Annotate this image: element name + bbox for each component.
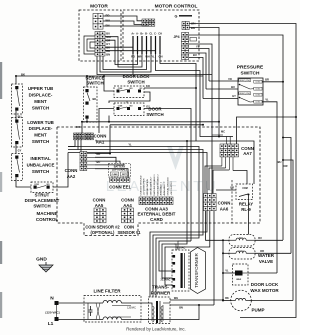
svg-text:DISPLACE-: DISPLACE- — [29, 93, 53, 98]
svg-text:CONN: CONN — [241, 146, 254, 151]
svg-text:BU: BU — [97, 160, 101, 164]
svg-text:AA4: AA4 — [123, 203, 132, 208]
watermark — [106, 146, 219, 195]
svg-text:DIRTY: DIRTY — [122, 174, 128, 176]
svg-text:120VAC: 120VAC — [127, 307, 136, 310]
svg-text:COM: COM — [118, 105, 123, 107]
svg-text:CONN AA3: CONN AA3 — [145, 206, 168, 211]
svg-text:BR: BR — [265, 78, 269, 82]
svg-text:BU: BU — [258, 237, 262, 240]
svg-text:SERIAL DATA IN: SERIAL DATA IN — [146, 179, 149, 196]
svg-text:LINE FILTER: LINE FILTER — [94, 289, 122, 294]
connector CONN AA1 — [74, 133, 77, 136]
svg-text:CL: CL — [149, 33, 153, 36]
svg-text:CH: CH — [158, 33, 162, 36]
strut displacement switch S4 — [31, 182, 53, 193]
bar exit wires — [156, 54, 220, 137]
svg-text:DOOR LOCK: DOOR LOCK — [123, 74, 151, 79]
svg-text:N: N — [50, 296, 54, 302]
svg-text:LOWER TUB: LOWER TUB — [27, 120, 54, 125]
svg-text:AVAILABLE 1: AVAILABLE 1 — [160, 181, 163, 195]
svg-text:HOT: HOT — [239, 237, 244, 239]
svg-text:SWITCH: SWITCH — [146, 112, 163, 117]
svg-text:DISPLACE-: DISPLACE- — [29, 126, 53, 131]
svg-text:CARD: CARD — [150, 217, 163, 222]
svg-text:CONC: CONC — [255, 102, 261, 104]
svg-text:BU: BU — [193, 53, 197, 57]
svg-text:PUMP: PUMP — [251, 308, 264, 313]
svg-text:(OPTIONAL): (OPTIONAL) — [91, 230, 116, 235]
connector JG — [182, 22, 186, 26]
svg-text:WH: WH — [106, 19, 111, 23]
svg-text:CHASSIS GROUND: CHASSIS GROUND — [139, 175, 142, 195]
svg-text:22.5VAC: 22.5VAC — [161, 279, 171, 282]
JP4 wires — [189, 35, 283, 82]
svg-text:WAX MOTOR: WAX MOTOR — [250, 288, 279, 293]
svg-text:BK: BK — [225, 297, 229, 300]
AA6 load wires — [206, 211, 223, 241]
battery optional — [109, 164, 131, 178]
svg-text:RESET (21W): RESET (21W) — [239, 93, 250, 95]
svg-text:BU: BU — [231, 85, 235, 89]
svg-text:COM: COM — [242, 188, 247, 190]
svg-text:CONN: CONN — [94, 134, 107, 139]
svg-text:VO: VO — [228, 77, 232, 81]
svg-text:CONC: CONC — [255, 89, 261, 91]
svg-text:COM: COM — [118, 88, 123, 90]
wires motor to J2 — [103, 16, 142, 21]
svg-text:CONN: CONN — [218, 201, 231, 206]
svg-text:SIGNAL GROUND: SIGNAL GROUND — [167, 177, 170, 196]
upper tub displacement switch S1 — [12, 84, 23, 114]
svg-text:YL: YL — [196, 45, 200, 49]
transformer label plate — [191, 248, 206, 294]
svg-text:BU: BU — [106, 32, 110, 36]
svg-text:RD: RD — [106, 14, 110, 18]
svg-text:MENT: MENT — [34, 133, 47, 138]
svg-text:WH: WH — [145, 55, 149, 59]
connector CONN AA6 — [204, 194, 208, 198]
connector CONN AA2 — [80, 152, 83, 156]
svg-text:UNBALANCE: UNBALANCE — [27, 162, 55, 167]
svg-text:WATER: WATER — [258, 253, 275, 258]
svg-text:COIN SENSOR #2: COIN SENSOR #2 — [85, 225, 120, 230]
svg-text:MENT: MENT — [34, 99, 47, 104]
svg-text:TRANS-: TRANS- — [152, 285, 169, 290]
svg-text:+24V SUPPLY: +24V SUPPLY — [171, 181, 173, 196]
svg-text:KO: KO — [146, 84, 150, 88]
svg-text:BU: BU — [278, 160, 282, 164]
svg-text:CONC: CONC — [255, 82, 261, 84]
svg-text:YL: YL — [151, 55, 155, 59]
connector CONN EE1 — [110, 178, 113, 182]
svg-text:UPPER TUB: UPPER TUB — [28, 86, 53, 91]
svg-text:OR: OR — [260, 250, 264, 253]
svg-text:AA5: AA5 — [95, 203, 104, 208]
pump motor — [231, 290, 252, 311]
svg-text:AVAILABLE 2: AVAILABLE 2 — [163, 181, 166, 195]
motor main connector — [95, 32, 100, 36]
bottom wires — [163, 302, 170, 304]
relay RL-9 — [236, 184, 253, 200]
svg-text:INERTIAL: INERTIAL — [30, 156, 51, 161]
svg-text:BK: BK — [93, 97, 97, 101]
svg-text:MOTOR: MOTOR — [90, 4, 108, 10]
door lock wax motor — [233, 264, 249, 285]
svg-text:SERVICE: SERVICE — [85, 75, 104, 80]
motor body core — [84, 36, 95, 54]
svg-text:OR: OR — [230, 187, 234, 190]
svg-text:BN: BN — [179, 307, 183, 310]
door switch S7 — [114, 103, 144, 116]
svg-text:CONC: CONC — [255, 95, 261, 97]
svg-text:CONN: CONN — [65, 168, 78, 173]
svg-text:FORMER: FORMER — [151, 290, 171, 295]
svg-text:SWITCH: SWITCH — [32, 105, 49, 110]
svg-text:MC: MC — [221, 129, 225, 133]
svg-text:STRUT: STRUT — [35, 193, 50, 198]
svg-text:TRANSFORMER: TRANSFORMER — [194, 252, 199, 288]
svg-text:YL: YL — [128, 142, 132, 146]
bus wires — [68, 140, 75, 147]
inertial unbalance switch S3 — [12, 154, 23, 181]
pressure switch left wires — [209, 80, 238, 82]
water valve coil 2 cold — [229, 248, 255, 260]
svg-text:SERIAL DATA OUT: SERIAL DATA OUT — [150, 176, 153, 196]
svg-text:BN: BN — [106, 53, 110, 57]
svg-text:A-: A- — [136, 33, 139, 36]
svg-text:G: G — [175, 14, 178, 18]
svg-text:RD: RD — [97, 152, 101, 156]
svg-text:CONN: CONN — [93, 198, 106, 203]
machine control U2 dashed box — [57, 127, 260, 236]
wire JG to right edge — [189, 24, 296, 318]
svg-text:COM: COM — [34, 184, 39, 186]
svg-text:L1: L1 — [48, 321, 54, 327]
svg-text:AA6: AA6 — [220, 207, 229, 212]
svg-text:RESET (21W): RESET (21W) — [239, 80, 250, 82]
svg-text:SWITCH: SWITCH — [241, 71, 260, 77]
lower tub displacement switch S2 — [12, 118, 23, 148]
motor top connector — [93, 14, 98, 19]
svg-text:SWITCH: SWITCH — [127, 79, 144, 84]
svg-text:MACHINE ENABLE 2: MACHINE ENABLE 2 — [156, 174, 159, 196]
door switch wires — [104, 76, 114, 91]
svg-text:SWITCH: SWITCH — [86, 81, 103, 86]
svg-text:MOTOR CONTROL: MOTOR CONTROL — [155, 4, 198, 10]
svg-text:+5V LOGIC PWR: +5V LOGIC PWR — [144, 178, 146, 195]
water valve coil 1 hot — [229, 235, 255, 247]
transformer T1 — [172, 250, 189, 291]
svg-text:DOOR LOCK: DOOR LOCK — [251, 282, 279, 287]
svg-text:CONN EE1: CONN EE1 — [109, 185, 131, 190]
svg-text:[120 VAC]: [120 VAC] — [46, 311, 60, 315]
svg-text:RL-9: RL-9 — [241, 207, 251, 212]
svg-text:DOOR: DOOR — [148, 107, 162, 112]
svg-text:GY: GY — [18, 149, 22, 153]
svg-text:EXTERNAL DEBIT: EXTERNAL DEBIT — [138, 212, 176, 217]
svg-text:AA2: AA2 — [67, 174, 76, 179]
svg-text:VALVE: VALVE — [259, 259, 273, 264]
connector J2 — [142, 19, 145, 23]
svg-text:SWITCH: SWITCH — [32, 139, 49, 144]
svg-text:VL: VL — [265, 97, 269, 101]
svg-text:SWITCH: SWITCH — [33, 204, 50, 209]
svg-text:SWITCH: SWITCH — [32, 169, 49, 174]
svg-text:GY: GY — [106, 42, 110, 46]
svg-text:GND: GND — [36, 257, 47, 263]
svg-text:BU: BU — [18, 115, 22, 119]
svg-text:B+: B+ — [140, 33, 144, 36]
svg-text:OR: OR — [284, 164, 288, 168]
svg-text:WH: WH — [174, 297, 178, 300]
svg-text:(OPTIONAL): (OPTIONAL) — [112, 169, 127, 172]
svg-text:VL: VL — [225, 270, 229, 273]
scan artifact smudges — [0, 62, 2, 99]
svg-text:WAX: WAX — [236, 278, 242, 281]
svg-text:COLD: COLD — [238, 250, 244, 252]
svg-text:MACHINE: MACHINE — [37, 211, 58, 216]
svg-text:AA7: AA7 — [243, 151, 252, 156]
svg-text:RELAY: RELAY — [239, 202, 253, 207]
svg-text:CONTROL: CONTROL — [36, 217, 58, 222]
motor wiring loops — [97, 56, 212, 75]
svg-text:Rendered by LeadVenture, Inc.: Rendered by LeadVenture, Inc. — [126, 327, 185, 332]
svg-text:GY: GY — [146, 104, 150, 108]
svg-text:OH: OH — [159, 55, 163, 59]
svg-text:COIN: COIN — [124, 225, 134, 230]
svg-text:BN: BN — [106, 24, 110, 28]
svg-text:DISPLACEMENT: DISPLACEMENT — [25, 198, 60, 203]
svg-text:CLEAN: CLEAN — [112, 173, 119, 176]
pressure switch right wires — [262, 82, 283, 240]
svg-text:PRESSURE: PRESSURE — [237, 65, 264, 71]
svg-text:MACHINE ENABLE 1: MACHINE ENABLE 1 — [153, 174, 156, 196]
svg-text:JP4: JP4 — [173, 35, 179, 39]
svg-text:A+: A+ — [131, 33, 135, 36]
svg-text:CONN: CONN — [121, 198, 134, 203]
svg-text:B-: B- — [145, 33, 148, 36]
svg-text:AA1: AA1 — [96, 139, 105, 144]
svg-text:GY: GY — [232, 94, 236, 98]
svg-text:C-: C- — [154, 33, 157, 36]
svg-text:SENSOR #1: SENSOR #1 — [118, 230, 142, 235]
